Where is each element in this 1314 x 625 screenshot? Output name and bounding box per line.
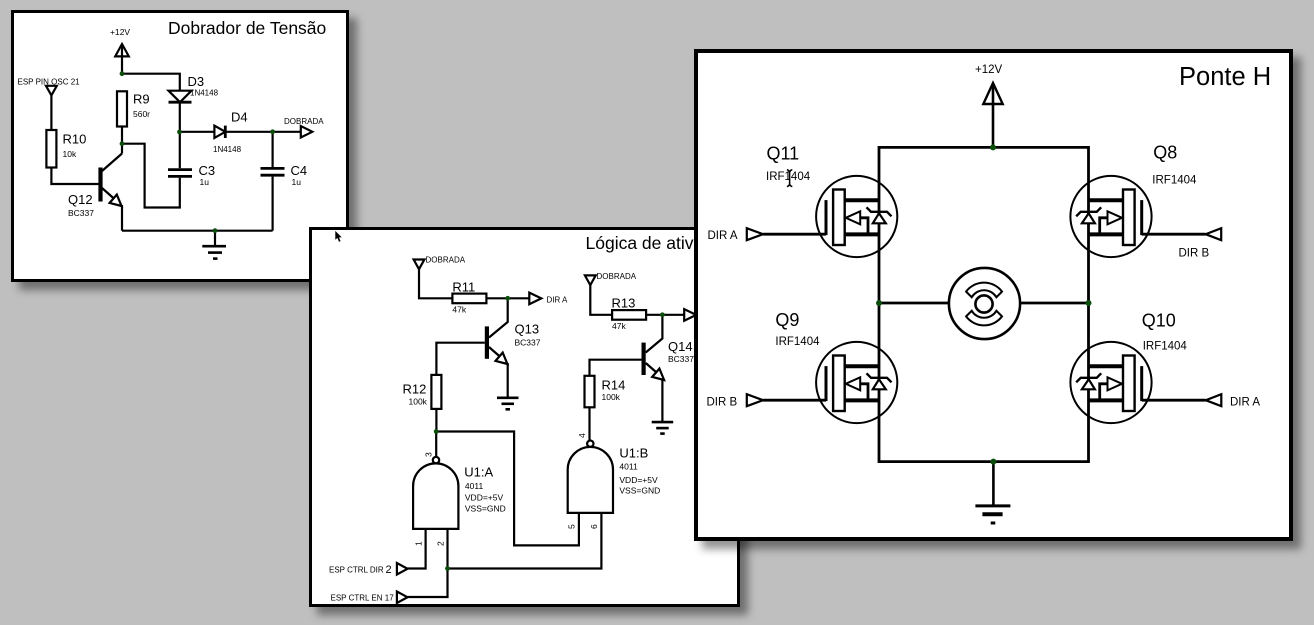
- ground symbol: [992, 462, 995, 506]
- svg-text:DIR A: DIR A: [708, 230, 738, 242]
- capacitor C3: [179, 132, 181, 168]
- node collector junction: [120, 141, 125, 146]
- transistor Q14: [642, 343, 646, 375]
- panel Ponte H: [694, 49, 1293, 541]
- ground symbol: [214, 231, 216, 246]
- diode D3: [169, 91, 192, 103]
- resistor R13: [612, 310, 646, 320]
- transistor Q8: [1070, 176, 1151, 257]
- panel Lógica de ativação: [309, 227, 740, 607]
- svg-text:Q11: Q11: [767, 144, 800, 164]
- svg-text:Ponte H: Ponte H: [1179, 63, 1271, 91]
- capacitor C4: [272, 132, 274, 167]
- transistor Q10: [1070, 342, 1151, 423]
- wire R14 to U1:B bubble: [588, 407, 590, 440]
- wire Q13 base to R12: [436, 343, 484, 375]
- wire bottom rail: [879, 460, 1089, 463]
- wire DOBRADA to R13: [590, 285, 612, 315]
- terminal DIR B right: [1206, 228, 1222, 240]
- terminal DIR A right: [1206, 394, 1222, 406]
- wire R12 to U1:A output node: [435, 409, 437, 432]
- power +12V arrow: [983, 83, 1002, 104]
- wire node to bubble: [435, 432, 437, 457]
- node motor left junction: [876, 300, 882, 306]
- svg-text:DIR A: DIR A: [1230, 397, 1260, 409]
- svg-text:IRF1404: IRF1404: [1152, 175, 1197, 187]
- wire C4 bottom to ground rail: [272, 177, 274, 231]
- terminal hidden right: [684, 309, 696, 321]
- wire R11 to DIR A: [486, 297, 529, 299]
- terminal DOBRADA left: [414, 260, 425, 270]
- svg-text:IRF1404: IRF1404: [1143, 341, 1188, 353]
- ground symbol Q14: [652, 421, 674, 424]
- wire +12V to junction: [121, 46, 123, 74]
- terminal DOBRADA right: [585, 275, 596, 285]
- svg-text:DIR B: DIR B: [707, 397, 738, 409]
- wire node to Q13 collector: [489, 298, 508, 337]
- gate U1:A: [433, 457, 439, 463]
- gate U1:B: [587, 441, 593, 447]
- svg-text:+12V: +12V: [975, 64, 1003, 76]
- terminal DIR A: [529, 293, 541, 305]
- wire DOBRADA to R11: [419, 269, 452, 298]
- node +12V junction: [120, 71, 125, 76]
- terminal DOBRADA output: [301, 126, 313, 138]
- node Q13 collector junction: [505, 296, 510, 301]
- text cursor I-beam: [787, 170, 792, 187]
- wire motor right: [1020, 302, 1088, 305]
- resistor R10: [46, 130, 56, 168]
- node +12V junction: [990, 144, 996, 150]
- wire R13 to DIR B terminal: [646, 314, 684, 316]
- wire top rail: [879, 146, 1089, 149]
- wire Q14 base to R14: [590, 360, 642, 376]
- transistor Q13: [485, 326, 489, 358]
- diode D4: [214, 126, 225, 138]
- node Q14 collector junction: [660, 312, 665, 317]
- wire +12V rail to D3: [122, 74, 180, 91]
- svg-text:Q8: Q8: [1153, 143, 1177, 163]
- wire Q11 gate: [763, 233, 826, 236]
- pin 1 wire: [408, 529, 426, 569]
- node ground junction: [213, 228, 218, 233]
- node C3 top junction: [177, 130, 182, 135]
- wire junction to U1:B pin6: [448, 513, 602, 569]
- node motor right junction: [1086, 300, 1092, 306]
- svg-text:DIR B: DIR B: [1179, 248, 1210, 260]
- wire D4 to DOBRADA node: [225, 131, 300, 133]
- wire U1:A output to U1:B pin5: [436, 432, 579, 546]
- node ESP CTRL junction: [445, 566, 450, 571]
- panel Dobrador de Tensão: [11, 10, 349, 282]
- svg-text:IRF1404: IRF1404: [766, 171, 811, 183]
- svg-text:Q10: Q10: [1142, 311, 1176, 331]
- wire Q14 emitter to ground: [661, 379, 663, 422]
- resistor R11: [452, 294, 486, 304]
- node ground junction: [990, 459, 996, 465]
- wire D3 to node: [179, 102, 181, 132]
- resistor R9: [117, 91, 127, 126]
- wire R9 to collector node: [121, 127, 123, 144]
- node U1:A output junction: [434, 429, 439, 434]
- resistor R12: [431, 375, 441, 409]
- wire node to Q14 collector: [646, 315, 663, 353]
- wire Q10 gate: [1142, 399, 1206, 402]
- wire right rail: [1087, 146, 1090, 463]
- wire Q9 gate: [763, 399, 826, 402]
- resistor R14: [585, 376, 595, 408]
- transistor Q9: [816, 342, 897, 423]
- wire terminal to R10: [50, 95, 52, 130]
- wire motor left: [879, 302, 949, 305]
- mouse cursor: [335, 231, 341, 242]
- power +12V arrow symbol: [115, 44, 129, 56]
- svg-text:Q9: Q9: [775, 310, 799, 330]
- terminal DIR B left: [747, 394, 763, 406]
- motor: [949, 268, 1020, 339]
- terminal DIR A left: [747, 228, 763, 240]
- wire C3 bottom to pump node: [122, 144, 180, 208]
- wire left rail: [878, 146, 881, 463]
- node DOBRADA junction: [270, 129, 275, 134]
- wire R10 to base: [51, 168, 98, 185]
- svg-text:IRF1404: IRF1404: [775, 336, 820, 348]
- wire Q8 gate: [1142, 233, 1206, 236]
- pin 2 wire: [408, 529, 448, 597]
- transistor Q12: [98, 168, 102, 202]
- wire node to D4: [180, 131, 215, 133]
- wire ground rail: [122, 230, 273, 232]
- transistor Q11: [816, 176, 897, 257]
- ground symbol Q13: [497, 396, 519, 399]
- wire emitter to ground rail: [121, 205, 123, 231]
- wire Q13 emitter to ground: [507, 363, 509, 398]
